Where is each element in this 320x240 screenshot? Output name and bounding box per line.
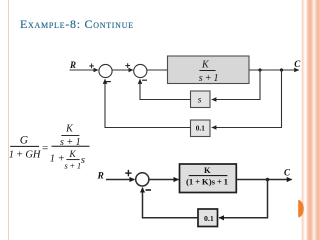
slide title	[20, 17, 134, 32]
svg-text:C: C	[294, 59, 301, 69]
plus sign at summing junction S3	[125, 170, 131, 176]
wire S3 to block K/((1+K)s+1)	[149, 179, 178, 181]
svg-text:(1 + K)s + 1: (1 + K)s + 1	[186, 176, 228, 186]
equation G/(1+GH) = (K/(s+1)) / (1 + (K/(s+1))s)	[9, 123, 90, 170]
plus sign at summing junction S2	[125, 63, 130, 68]
svg-text:K: K	[204, 165, 211, 175]
plus sign at summing junction S1	[89, 64, 94, 69]
block G1: K/(s+1) with value label	[168, 56, 250, 84]
left accent line	[8, 0, 9, 240]
orange semicircle tab	[296, 199, 306, 219]
wire block s output up into S2	[140, 79, 191, 99]
wire block G1 output to node C	[249, 69, 299, 71]
svg-text:R: R	[69, 60, 76, 70]
svg-text:0.1: 0.1	[196, 124, 205, 132]
svg-text:s: s	[81, 155, 85, 166]
block H1: s (derivative feedback) with value label	[191, 91, 211, 108]
wire block 0.1 output up into S3	[143, 188, 199, 218]
wire takeoff C down-left into block 0.1 (bottom)	[219, 180, 268, 218]
block G2: K/((1+K)s+1) with value label	[180, 164, 237, 193]
block H2: 0.1 (top feedback gain) with value label	[191, 120, 211, 137]
minus sign at summing junction S1	[106, 81, 111, 83]
svg-text:s + 1: s + 1	[199, 73, 219, 84]
junction dot B (outer-loop takeoff)	[280, 68, 283, 71]
right sidebar band	[301, 0, 320, 240]
svg-text:R: R	[97, 171, 104, 181]
summing junction S2 (top inner loop)	[134, 64, 147, 77]
svg-text:G: G	[20, 135, 29, 147]
svg-text:C: C	[284, 168, 291, 178]
svg-text:s: s	[198, 95, 202, 105]
svg-text:s + 1: s + 1	[64, 160, 81, 170]
wire R to summing junction S1	[70, 69, 99, 71]
svg-text:0.1: 0.1	[204, 214, 214, 223]
summing junction S1 (top outer loop)	[99, 64, 112, 77]
svg-text:K: K	[68, 150, 76, 160]
wire R to summing junction S3	[106, 179, 135, 181]
wire takeoff A down-left into block s	[212, 70, 260, 100]
wire S1 to summing junction S2	[112, 69, 133, 71]
svg-text:1 +: 1 +	[50, 154, 65, 165]
minus sign at summing junction S2	[142, 79, 147, 81]
summing junction S3 (bottom diagram)	[136, 173, 149, 186]
svg-text:1 + GH: 1 + GH	[9, 149, 42, 160]
wire block 0.1 output up into S1	[105, 79, 191, 127]
svg-text:=: =	[42, 142, 48, 154]
svg-text:K: K	[201, 60, 210, 71]
wire takeoff B down-left into block 0.1 (top)	[212, 70, 282, 128]
wire block G2 output to node C	[236, 179, 291, 181]
junction dot A (inner-loop takeoff)	[258, 68, 261, 71]
junction dot C (bottom takeoff)	[266, 178, 270, 182]
block H3: 0.1 (bottom feedback gain) with value label	[198, 209, 218, 227]
minus sign at summing junction S3	[146, 189, 152, 191]
svg-text:K: K	[65, 123, 74, 134]
wire S2 to block K/(s+1)	[147, 69, 168, 71]
